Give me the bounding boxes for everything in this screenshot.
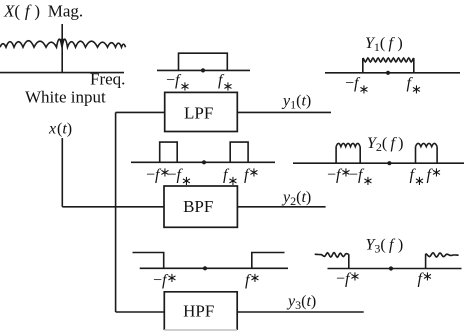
node arrowhead on input spectrum axis	[60, 39, 64, 46]
node Y1(f) origin dot	[386, 71, 390, 75]
svg-text:f∗: f∗	[218, 72, 233, 94]
node Y3(f) output spectrum axis	[328, 268, 462, 270]
node HPF transfer origin dot	[203, 266, 207, 270]
svg-text:−f∗: −f∗	[345, 75, 369, 97]
svg-text:Y2( f ): Y2( f )	[367, 135, 403, 154]
node Y2(f) output spectrum axis	[293, 162, 464, 164]
svg-text:f∗: f∗	[410, 167, 425, 189]
svg-text:−f∗: −f∗	[349, 167, 373, 189]
wire x(t) input drop	[61, 138, 63, 207]
node Y2(f) left band noisy top	[336, 143, 360, 146]
svg-text:f∗: f∗	[418, 269, 433, 288]
node BPF transfer right rectangle	[230, 142, 248, 162]
svg-text:−f∗: −f∗	[168, 167, 192, 189]
svg-text:f∗: f∗	[223, 167, 238, 189]
node X(f) input spectrum plot axes	[0, 24, 124, 73]
wire LPF input from bus	[116, 111, 165, 113]
svg-text:X( f ) Mag.: X( f ) Mag.	[3, 2, 83, 21]
node LPF transfer function rectangle	[179, 53, 228, 70]
node Y3(f) right tail edge	[425, 254, 427, 269]
node Y3(f) left tail edge	[348, 254, 350, 268]
svg-text:BPF: BPF	[183, 197, 213, 216]
svg-text:f∗: f∗	[245, 270, 260, 289]
node Y1(f) spectrum right edge	[413, 58, 415, 73]
svg-text:x: x	[48, 121, 56, 138]
node Y2(f) right band noisy top	[416, 143, 438, 146]
node LPF transfer origin dot	[201, 68, 205, 72]
node Y1(f) output spectrum axis	[325, 72, 460, 74]
svg-text:LPF: LPF	[184, 104, 213, 123]
wire HPF input from bus	[116, 311, 165, 313]
wire HPF output y3	[237, 311, 364, 313]
op-amp HPF box	[164, 292, 237, 330]
node Y1(f) noisy top	[363, 58, 414, 62]
svg-text:−f∗: −f∗	[336, 269, 360, 288]
op-amp LPF box	[165, 92, 238, 131]
svg-text:Y1( f ): Y1( f )	[365, 35, 403, 54]
op-amp BPF box	[164, 186, 237, 227]
node Y2(f) left band edges	[335, 147, 337, 164]
node Y3(f) origin dot	[389, 266, 393, 270]
svg-text:y3(t): y3(t)	[286, 293, 316, 312]
svg-text:−f∗: −f∗	[166, 72, 190, 94]
node HPF transfer right step	[252, 253, 285, 269]
svg-text:White input: White input	[25, 88, 106, 107]
svg-text:f∗: f∗	[427, 165, 442, 184]
node Y2(f) origin dot	[387, 161, 391, 165]
svg-text:Y3( f ): Y3( f )	[366, 237, 404, 256]
node HPF transfer function axis	[140, 267, 288, 269]
node BPF transfer origin dot	[202, 160, 206, 164]
node HPF transfer left step	[133, 253, 164, 269]
wire vertical axis of input spectrum	[61, 24, 63, 73]
node BPF transfer left rectangle	[160, 142, 178, 162]
svg-text:Freq.: Freq.	[90, 70, 125, 89]
wire vertical bus	[115, 112, 117, 312]
svg-text:f∗: f∗	[407, 75, 422, 97]
wire horizontal axis of input spectrum	[0, 72, 124, 74]
wire BPF output y2	[237, 206, 325, 208]
wire BPF input	[62, 206, 164, 208]
svg-text:−f∗: −f∗	[327, 165, 351, 184]
node Y3(f) left noisy tail	[315, 253, 349, 258]
node Y3(f) right noisy tail	[426, 253, 459, 257]
node Y2(f) right band edges	[415, 147, 417, 164]
svg-text:y2(t): y2(t)	[281, 189, 311, 208]
svg-text:(t): (t)	[57, 121, 72, 138]
node Y1(f) spectrum left edge	[362, 58, 364, 73]
wire LPF output y1	[237, 111, 331, 113]
svg-text:HPF: HPF	[183, 301, 214, 320]
svg-text:−f∗: −f∗	[153, 270, 177, 289]
svg-text:y1(t): y1(t)	[281, 93, 311, 112]
node BPF transfer function axis	[131, 161, 275, 163]
node HPF box faded bottom edge	[164, 329, 237, 331]
node noise waveform X(f)	[0, 39, 126, 47]
svg-text:f∗: f∗	[244, 165, 259, 184]
node LPF transfer function axis	[157, 69, 250, 71]
